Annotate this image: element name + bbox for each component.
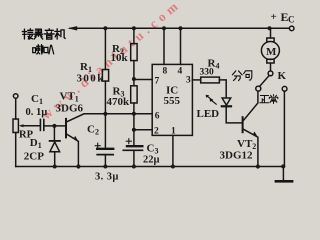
terminal input circle [13,94,18,99]
junction bottom VT1 emitter [76,164,80,168]
LED cathode bar [222,105,231,107]
label 正常 [260,95,278,104]
capacitor C3 bottom plate [123,149,142,151]
capacitor C2 bottom lead [104,155,106,167]
capacitor C3 bottom lead [133,150,135,166]
LED emission arrows [207,96,212,100]
svg-text:10k: 10k [111,52,129,64]
svg-text:0. 1µ: 0. 1µ [26,107,48,118]
op-amp U1 IC 555 box [152,64,192,135]
transistor VT1 emitter arrow [74,136,79,141]
wire pin2 [134,129,152,131]
svg-text:3: 3 [186,76,191,86]
transistor VT2 collector [244,92,258,121]
motor M top brush [267,38,274,42]
capacitor C2 plus sign [95,143,100,148]
svg-text:8: 8 [163,67,168,77]
motor M body [261,42,279,60]
junction bottom VT2 emitter [256,164,260,168]
wire pin4 drop [180,28,182,64]
label 喇叭 [33,45,54,54]
capacitor C2 top plate [97,148,113,150]
wire input to RP [15,98,17,119]
wire R4 to LED [219,80,226,98]
svg-text:1: 1 [171,127,176,137]
wire R1 top lead [104,28,106,69]
capacitor C3 plus sign [126,139,131,144]
svg-text:+: + [271,11,277,23]
LED D2 triangle [222,98,231,105]
resistor R2 box [131,44,137,61]
junction bottom ground [281,164,285,168]
junction bottom pin1 [171,165,175,169]
transistor VT2 base bar [242,117,244,132]
svg-text:6: 6 [155,112,160,122]
svg-text:4: 4 [178,67,183,77]
svg-text:7: 7 [155,77,160,87]
wire 正常 contact drop [283,91,285,166]
wire pin7 [134,79,152,81]
junction R3/pin6 [132,112,136,116]
junction top rail R2 [132,26,136,30]
arrow to speaker [68,26,78,30]
wire wiper to C1 [22,125,40,127]
watermark [39,0,184,122]
svg-text:3DG12: 3DG12 [220,150,254,162]
junction pin2 [132,128,136,132]
wire D1 bottom lead [54,152,56,167]
junction bottom D1 [53,165,57,169]
switch K arm [260,76,269,87]
wire R3 bottom lead [133,103,135,146]
resistor R1 box [102,70,108,82]
wire R2 top lead [133,28,135,43]
junction top rail pin4 [179,26,183,30]
junction D1 top [52,124,56,128]
ground bar [276,180,292,183]
potentiometer RP box [13,119,18,133]
transistor VT1 base bar [65,119,67,137]
switch K pole contact [268,71,273,76]
wire top rail [70,27,289,29]
wire pin8 drop [163,28,165,64]
label 接录音机 [22,29,65,39]
capacitor C3 top plate [127,145,142,147]
motor M bottom brush [267,59,274,63]
wire pin6 [105,113,152,115]
capacitor C1 left plate [39,119,41,130]
svg-text:C: C [288,15,295,25]
transistor VT2 emitter [244,129,258,166]
switch K pole wire from motor [270,63,272,71]
wire pin1 drop [172,135,174,166]
svg-text:555: 555 [164,95,181,107]
resistor R4 box [201,77,220,83]
svg-text:22µ: 22µ [143,155,160,166]
wire C1 to VT1 base [44,125,65,127]
transistor VT1 collector [67,114,106,122]
svg-text:LED: LED [197,108,220,120]
wire R1 bottom lead [104,81,106,114]
motor M top lead [270,28,272,38]
svg-text:2CP: 2CP [24,150,44,162]
svg-text:3DG6: 3DG6 [56,103,84,115]
svg-text:470k: 470k [107,96,131,108]
diode D1 cathode bar [50,140,60,142]
svg-text:300k: 300k [77,73,105,85]
wire R2-R3 [133,61,135,86]
switch contact 分句 [256,86,261,91]
potentiometer RP wiper arrow [19,124,24,127]
junction top rail motor [268,26,272,30]
transistor VT2 emitter arrow [253,132,258,138]
wire RP bottom lead [15,133,17,167]
svg-text:K: K [278,70,287,82]
svg-text:330: 330 [200,68,215,78]
junction bottom C2 [103,165,107,169]
junction collector node [103,112,107,116]
junction top rail R1 [103,26,107,30]
svg-text:M: M [266,46,277,58]
transistor VT1 emitter [67,134,79,166]
wire D1 top lead [53,126,55,140]
wire LED to VT2 base [226,107,242,123]
capacitor C2 top lead [104,114,106,148]
resistor R3 box [131,86,137,103]
svg-text:2: 2 [154,127,159,137]
capacitor C2 bottom plate [97,154,113,156]
capacitor C1 right plate [43,119,45,130]
svg-text:3. 3µ: 3. 3µ [95,172,119,183]
terminal +Ec circle [289,26,294,31]
junction bottom C3 [132,165,136,169]
wire pin3 [192,79,200,81]
switch contact 正常 [282,86,287,91]
diode D1 triangle [50,142,60,152]
label 分句 [232,71,251,81]
junction top rail pin8 [162,26,166,30]
junction pin7 [132,77,136,81]
ground stem [282,167,284,181]
wire bottom rail [16,166,285,168]
